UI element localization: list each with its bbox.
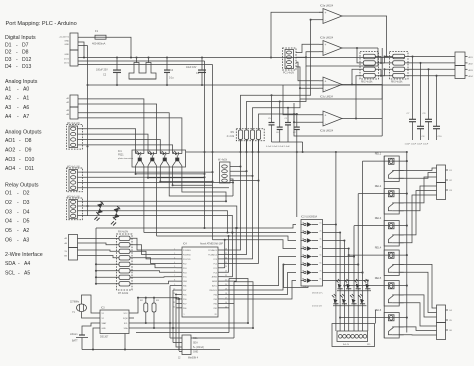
svg-text:GND: GND <box>102 328 107 330</box>
wire opto emitter bus row 2 <box>148 177 205 179</box>
LED indicator D6 <box>345 279 352 289</box>
wire fuse to +V rail <box>106 37 131 57</box>
vertical bus wire x212.5 <box>212 65 214 240</box>
svg-text:-: - <box>17 219 19 225</box>
svg-text:REL3: REL3 <box>375 216 382 220</box>
wire relay area to W5 right <box>375 310 377 324</box>
svg-text:PB2: PB2 <box>214 303 217 305</box>
connector J8 relay outputs 4-6 <box>437 305 446 323</box>
connector J2 2-wire port <box>182 335 191 355</box>
svg-text:-: - <box>19 138 21 144</box>
svg-text:-: - <box>17 105 19 111</box>
svg-text:PB1: PB1 <box>214 308 217 310</box>
svg-text:6B: 6B <box>302 262 304 264</box>
wires RN4 bottoms to rail <box>240 139 242 152</box>
driver IC2 channel 1 <box>301 224 304 226</box>
protection LED pair DL1 <box>97 201 104 208</box>
svg-text:AVCC: AVCC <box>212 285 218 288</box>
diode block PC1 4x1N <box>283 48 297 70</box>
svg-text:PB7: PB7 <box>183 290 186 292</box>
wire SCL riser L <box>229 279 248 324</box>
svg-text:8: 8 <box>174 280 175 282</box>
svg-text:PB6: PB6 <box>183 286 186 288</box>
LED indicator D5 <box>336 279 343 289</box>
svg-text:Analog Outputs: Analog Outputs <box>5 130 42 136</box>
svg-text:SCL: SCL <box>5 271 15 277</box>
svg-text:AO4: AO4 <box>5 166 15 172</box>
svg-text:-: - <box>17 228 19 234</box>
driver IC2 channel 7 <box>301 272 304 274</box>
svg-text:Digital Inputs: Digital Inputs <box>5 35 36 41</box>
svg-text:4 x 10k: 4 x 10k <box>227 136 235 138</box>
svg-text:D1 In: D1 In <box>64 59 70 61</box>
svg-text:-: - <box>16 50 18 56</box>
svg-text:D9: D9 <box>25 147 32 153</box>
svg-text:D8: D8 <box>25 138 32 144</box>
wire bundle net 2 to ULN input 2 <box>144 232 296 234</box>
GND power rail horizontal <box>88 84 411 86</box>
svg-text:X2: X2 <box>102 318 104 320</box>
svg-text:RN3 4x10k: RN3 4x10k <box>391 82 403 84</box>
junction dots AO to capacitors <box>411 55 413 57</box>
svg-text:+: + <box>325 80 327 84</box>
wires RN2 to RN3 crossed pairs <box>375 57 392 63</box>
wires RN4 tops up to op-amp input nets <box>241 20 311 130</box>
svg-text:REL2: REL2 <box>375 184 382 188</box>
wire opto emitter bus row 1 <box>136 173 205 175</box>
svg-text:PB3: PB3 <box>214 299 217 301</box>
vertical wire x96 <box>95 228 97 284</box>
vertical bus wire left x87.5 <box>87 46 89 217</box>
svg-text:PD2: PD2 <box>183 263 187 265</box>
wire W2 lines to right <box>78 171 213 173</box>
svg-text:O5: O5 <box>5 228 12 234</box>
driver IC2 channel 2 <box>301 232 304 234</box>
wires J5 pins to RN1 <box>78 238 120 240</box>
vertical wire rail to LED column 1 <box>335 152 337 331</box>
wires verticals to relay coil lines <box>363 160 407 162</box>
svg-text:-: - <box>325 19 326 23</box>
wire op-amp1 feedback to riser <box>311 19 319 21</box>
connector J3 analog inputs <box>70 95 78 107</box>
svg-text:D2: D2 <box>5 50 12 56</box>
ground rail bottom <box>82 349 220 351</box>
connector J5 2-wire bus <box>69 235 78 248</box>
svg-text:D1: D1 <box>5 43 12 49</box>
svg-text:1B: 1B <box>302 222 304 224</box>
svg-text:-: - <box>17 191 19 197</box>
bypass capacitor C12 1.0uF <box>296 114 298 127</box>
connector J1 power and digital inputs <box>70 33 78 50</box>
capacitor C10 <box>436 76 438 127</box>
wires relays 1-3 to connector J7 <box>399 168 436 170</box>
svg-text:-: - <box>17 87 19 93</box>
wires DS1307 SCL SDA to bus <box>134 322 248 324</box>
svg-text:IC2 ULN2803A: IC2 ULN2803A <box>301 216 317 219</box>
capacitor C9 <box>428 69 430 119</box>
svg-text:VBAT: VBAT <box>102 322 108 325</box>
svg-text:A4: A4 <box>24 261 30 267</box>
svg-text:+: + <box>325 11 327 15</box>
svg-text:2-Wire Interface: 2-Wire Interface <box>5 252 43 258</box>
wire ULN GND wrap under box <box>284 265 309 288</box>
wire op-amp3 inputs <box>296 62 319 81</box>
svg-text:A3: A3 <box>23 238 29 244</box>
svg-text:-: - <box>16 43 18 49</box>
connector J6 analog outputs <box>455 52 465 66</box>
svg-text:Port Mapping: PLC - Arduino: Port Mapping: PLC - Arduino <box>6 21 77 27</box>
svg-text:O3: O3 <box>5 209 12 215</box>
svg-text:3: 3 <box>174 257 175 259</box>
svg-text:VCC: VCC <box>124 313 129 315</box>
driver IC2 channel 3 <box>301 240 304 242</box>
svg-text:W: 4x1N: W: 4x1N <box>218 159 227 162</box>
wires crystal to DS1307 <box>82 295 96 313</box>
svg-text:O4: O4 <box>5 219 12 225</box>
wires RN1 lower inputs from left bus <box>96 263 119 265</box>
wires ATMEGA bottom right pins down <box>224 302 235 304</box>
svg-text:-: - <box>19 157 21 163</box>
LED indicator D2 <box>340 294 347 304</box>
svg-text:10uF 16V: 10uF 16V <box>186 66 197 69</box>
svg-text:0.1uF 0.1uF 0.1uF 1.0uF: 0.1uF 0.1uF 0.1uF 1.0uF <box>266 146 290 148</box>
wire op-amp1 non-inverting input <box>271 12 323 57</box>
bypass capacitor C11 0.1uF <box>287 108 289 123</box>
svg-text:O2: O2 <box>5 200 12 206</box>
svg-text:400-800mA: 400-800mA <box>92 42 106 46</box>
svg-text:RN 4x2%: RN 4x2% <box>118 231 129 234</box>
vertical feedback bus x382.2 <box>381 48 383 136</box>
svg-text:PB0: PB0 <box>183 308 186 310</box>
capacitor C8 <box>420 63 422 126</box>
protection LED pair DL2 <box>114 206 121 213</box>
svg-text:5+ (18mA): 5+ (18mA) <box>193 346 204 349</box>
svg-text:PD5: PD5 <box>183 295 187 297</box>
svg-text:-: - <box>325 51 326 55</box>
svg-text:IC3b LM324: IC3b LM324 <box>320 37 334 40</box>
wires W4 pins right to verticals <box>230 166 241 168</box>
pull-up resistor R3 <box>153 298 155 303</box>
svg-text:+: + <box>325 43 327 47</box>
resistor network RN1 (8 resistors) <box>117 234 133 290</box>
optocoupler IC1 channel 3 <box>159 150 161 154</box>
vertical LED column wires <box>339 233 341 332</box>
svg-text:O1: O1 <box>5 191 12 197</box>
wires relays 4-6 to connector J8 <box>399 264 436 308</box>
optocoupler IC1 channel 4 <box>172 150 174 154</box>
wire op-amp1 output to RN2 <box>346 16 387 57</box>
svg-text:D10: D10 <box>25 157 35 163</box>
svg-text:D1 D2 D3: D1 D2 D3 <box>312 306 322 308</box>
wire bundle net 1 to ULN input 1 <box>96 225 296 229</box>
resistor network RN3 <box>390 52 409 80</box>
svg-text:GN: GN <box>64 256 68 258</box>
wire W3 line 1 <box>78 200 227 202</box>
svg-text:1: 1 <box>184 314 185 316</box>
connector W5 LED header <box>332 324 375 347</box>
resistor network RN2 <box>360 52 379 80</box>
svg-text:PD0/RXD: PD0/RXD <box>183 254 191 256</box>
wire bundle net 4 to ULN input 4 <box>213 240 297 249</box>
svg-text:13: 13 <box>173 302 175 304</box>
svg-text:PD4: PD4 <box>183 272 187 274</box>
wire opto emitter bus row 4 <box>173 184 213 186</box>
svg-text:SCL: SCL <box>193 338 198 340</box>
wire W3 line 3 <box>78 211 228 233</box>
5V rail above RTC <box>138 297 179 299</box>
svg-text:+: + <box>325 114 327 118</box>
svg-text:PD6: PD6 <box>183 299 187 301</box>
driver IC2 channel 5 <box>301 256 304 258</box>
wires RN3 to connector J6 <box>405 56 455 58</box>
connector J7 relay outputs 1-3 <box>437 165 446 183</box>
svg-text:A5: A5 <box>24 271 30 277</box>
bypass capacitor C5 0.1uF <box>271 95 273 122</box>
wires W4 columns down to ATMEGA right pins 1-4 <box>224 139 241 250</box>
wire digital input D0 to bus <box>78 64 213 66</box>
svg-text:-: - <box>17 96 19 102</box>
LED indicator D4 <box>359 294 366 304</box>
optocoupler IC1 channel 2 <box>147 150 149 154</box>
svg-text:6: 6 <box>174 271 175 273</box>
svg-text:0.1u: 0.1u <box>169 77 174 80</box>
svg-text:IC3c LM324: IC3c LM324 <box>320 96 334 99</box>
svg-text:3B: 3B <box>302 238 304 240</box>
svg-text:D11: D11 <box>25 166 34 172</box>
svg-text:-: - <box>17 238 19 244</box>
wire W1 to opto LED inputs <box>78 129 136 150</box>
svg-text:MiniDIN 4: MiniDIN 4 <box>188 358 199 360</box>
LED indicator D1 <box>332 294 339 304</box>
svg-text:SDA: SDA <box>193 342 198 345</box>
+5V power rail horizontal <box>78 57 405 59</box>
wires RN1 outputs to ATMEGA left pins <box>130 238 177 250</box>
svg-text:AO2: AO2 <box>5 147 15 153</box>
wires ATMEGA right pins 9-12 to ULN inputs 5-8 <box>224 257 297 286</box>
optocoupler IC1 box <box>132 150 186 167</box>
voltage regulator VR1 package outline <box>129 63 156 80</box>
svg-text:AGND: AGND <box>212 276 218 279</box>
svg-text:PC5/ADC5: PC5/ADC5 <box>208 249 217 252</box>
svg-text:2B: 2B <box>302 230 304 232</box>
wire DS1307 GND down <box>93 328 95 350</box>
svg-text:GND: GND <box>193 352 198 354</box>
svg-text:2: 2 <box>174 253 175 255</box>
svg-text:X1: X1 <box>102 313 104 315</box>
svg-text:PB5/SCK: PB5/SCK <box>209 290 217 292</box>
horizontal rail y152 <box>186 151 407 153</box>
svg-text:SCL: SCL <box>124 323 128 325</box>
svg-text:28: 28 <box>215 314 217 316</box>
svg-text:1.0uF 1.0uF 1.0uF 1.0uF: 1.0uF 1.0uF 1.0uF 1.0uF <box>405 144 429 146</box>
svg-text:Relay Outputs: Relay Outputs <box>5 183 39 189</box>
svg-text:Analog Inputs: Analog Inputs <box>5 79 38 85</box>
wire digital input D1 to bus <box>78 60 205 62</box>
svg-text:BATT: BATT <box>72 340 78 343</box>
svg-text:REL4: REL4 <box>375 246 382 250</box>
svg-text:DS1307: DS1307 <box>100 337 109 339</box>
svg-text:D0 In: D0 In <box>64 63 70 65</box>
svg-text:4: 4 <box>174 262 175 264</box>
svg-text:A1: A1 <box>23 96 29 102</box>
svg-text:PC3: PC3 <box>214 259 218 261</box>
svg-text:-: - <box>325 121 326 125</box>
svg-text:A1: A1 <box>5 87 11 93</box>
wire W4 bottom corner link <box>230 179 233 196</box>
svg-text:14: 14 <box>173 306 175 308</box>
svg-text:REL1: REL1 <box>375 152 382 156</box>
bypass capacitor C6 0.1uF <box>279 102 281 128</box>
wire op-amp2 inputs <box>296 44 319 52</box>
svg-text:REL5: REL5 <box>375 276 382 280</box>
LED indicator D3 <box>350 294 357 304</box>
wire W3 line 4 <box>78 215 233 232</box>
svg-text:photo transistor: photo transistor <box>118 157 133 160</box>
svg-text:-: - <box>16 64 18 70</box>
svg-text:PB4: PB4 <box>214 295 217 297</box>
wires battery to DS1307 VBAT and GND rail <box>82 323 95 330</box>
svg-text:D7: D7 <box>22 43 29 49</box>
svg-text:PD1/TXD: PD1/TXD <box>183 259 191 261</box>
svg-text:100uF 25V: 100uF 25V <box>96 69 108 72</box>
svg-text:D4: D4 <box>23 209 30 215</box>
wire DS1307 VCC to 5V <box>134 298 138 313</box>
svg-text:A4: A4 <box>5 114 11 120</box>
svg-text:SDA: SDA <box>5 261 16 267</box>
svg-text:8B: 8B <box>302 278 304 280</box>
wire op-amp3 feedback loop <box>300 85 382 100</box>
svg-text:PC1: PC1 <box>214 268 218 270</box>
svg-text:-: - <box>17 209 19 215</box>
svg-text:PC2: PC2 <box>214 263 218 265</box>
wires ATMEGA left pins 9-12 down to J2 nets <box>170 285 177 287</box>
svg-text:D3: D3 <box>23 200 30 206</box>
capacitor C7 <box>412 57 414 120</box>
svg-text:-: - <box>18 271 20 277</box>
wire op-amp2 feedback loop <box>346 47 378 49</box>
svg-text:PC0: PC0 <box>214 272 218 274</box>
wire J1 GND pins down to rail <box>78 42 84 58</box>
wires J2 to bus <box>170 337 182 339</box>
svg-text:-: - <box>18 261 20 267</box>
svg-text:A2: A2 <box>23 228 29 234</box>
svg-text:RT 4x10k: RT 4x10k <box>118 292 129 295</box>
svg-text:PC4/ADC4: PC4/ADC4 <box>208 253 217 256</box>
wire op-amp4 feedback loop <box>346 118 382 120</box>
svg-text:SQW: SQW <box>123 318 128 320</box>
svg-text:D12: D12 <box>22 57 32 63</box>
svg-text:Atmel ATMEGA8-16P: Atmel ATMEGA8-16P <box>200 243 223 246</box>
wire W3 line 2 <box>78 206 237 228</box>
svg-text:AO1: AO1 <box>5 138 15 144</box>
svg-text:1: 1 <box>174 248 175 250</box>
svg-text:A6: A6 <box>23 105 29 111</box>
svg-text:5: 5 <box>174 266 175 268</box>
svg-text:-: - <box>16 57 18 63</box>
svg-text:P521: P521 <box>118 154 124 157</box>
svg-text:A7: A7 <box>23 114 29 120</box>
wire op-amp4 inputs <box>283 85 319 115</box>
svg-text:D8: D8 <box>22 50 29 56</box>
wires opto emitters down to bus rows <box>135 167 137 174</box>
wires ULN outputs to verticals <box>323 224 336 226</box>
svg-text:-: - <box>325 87 326 91</box>
svg-text:AO3: AO3 <box>5 157 15 163</box>
RTC IC3 DS1307 <box>100 310 129 334</box>
wire J1 pin1 to fuse F1 <box>78 36 95 38</box>
svg-text:IC3d LM324: IC3d LM324 <box>320 130 334 133</box>
svg-text:IC4: IC4 <box>183 243 187 246</box>
wires ATMEGA right pins 5-8 up to bundle <box>224 240 225 268</box>
wire C12 net down to ULN common <box>296 142 298 217</box>
svg-text:GND: GND <box>64 41 69 43</box>
svg-text:O6: O6 <box>5 238 12 244</box>
svg-text:Lithium: Lithium <box>70 333 77 336</box>
svg-text:GND: GND <box>183 281 188 283</box>
LED indicator D8 <box>364 279 371 289</box>
svg-text:8x1-N: 8x1-N <box>343 344 349 346</box>
svg-text:RN: RN <box>231 132 235 134</box>
svg-text:-: - <box>19 147 21 153</box>
relay left edge bus x384.2 <box>383 156 385 338</box>
LED cathode bar row1 <box>337 290 371 292</box>
svg-text:GND: GND <box>64 44 69 46</box>
wires opto collectors down long <box>143 167 145 233</box>
relay supply bus vertical x406.8 <box>406 152 408 333</box>
svg-text:RN2 4x10k: RN2 4x10k <box>361 82 373 84</box>
svg-text:PC6/RES: PC6/RES <box>183 250 191 252</box>
svg-text:A3: A3 <box>5 105 11 111</box>
svg-text:IC3a LM324: IC3a LM324 <box>320 5 334 8</box>
svg-text:+12-24V In: +12-24V In <box>59 37 70 39</box>
svg-text:D13: D13 <box>22 64 32 70</box>
wire bundle net 3 to ULN input 3 <box>157 236 296 241</box>
svg-text:PC1 4x1N: PC1 4x1N <box>283 72 294 75</box>
svg-text:D5 D6 D7+: D5 D6 D7+ <box>312 293 324 295</box>
svg-text:D4: D4 <box>5 64 12 70</box>
svg-text:A2: A2 <box>5 96 11 102</box>
wires op-amp outputs to resistor networks <box>352 69 363 84</box>
wire opto emitter bus row 3 <box>160 181 212 183</box>
svg-text:5B: 5B <box>302 254 304 256</box>
svg-text:GND: GND <box>64 54 69 56</box>
vertical bus wire x204.5 <box>204 61 206 228</box>
svg-text:-: - <box>17 114 19 120</box>
pull-up resistor R2 <box>145 298 147 303</box>
svg-text:PD3: PD3 <box>183 268 187 270</box>
LED cathode bar row2 <box>333 305 367 307</box>
svg-text:4B: 4B <box>302 246 304 248</box>
driver IC2 channel 6 <box>301 264 304 266</box>
svg-text:D5: D5 <box>23 219 30 225</box>
LED indicator D7 <box>354 279 361 289</box>
svg-text:7B: 7B <box>302 270 304 272</box>
driver IC2 channel 8 <box>301 280 304 282</box>
optocoupler IC1 channel 1 <box>135 150 137 154</box>
svg-text:D2: D2 <box>23 191 30 197</box>
svg-text:32768Hz: 32768Hz <box>70 302 80 304</box>
resistor network RN4 (4 vertical resistors) <box>236 129 264 141</box>
svg-text:PD7: PD7 <box>183 303 187 305</box>
svg-text:-: - <box>19 166 21 172</box>
wire J3 staircase to opto couplers <box>78 99 144 150</box>
svg-text:D3: D3 <box>5 57 12 63</box>
driver IC2 channel 4 <box>301 248 304 250</box>
wire SDA riser L <box>234 282 253 328</box>
wire capacitor common to rail <box>272 141 303 143</box>
svg-text:24: 24 <box>225 266 227 268</box>
svg-text:7: 7 <box>174 275 175 277</box>
